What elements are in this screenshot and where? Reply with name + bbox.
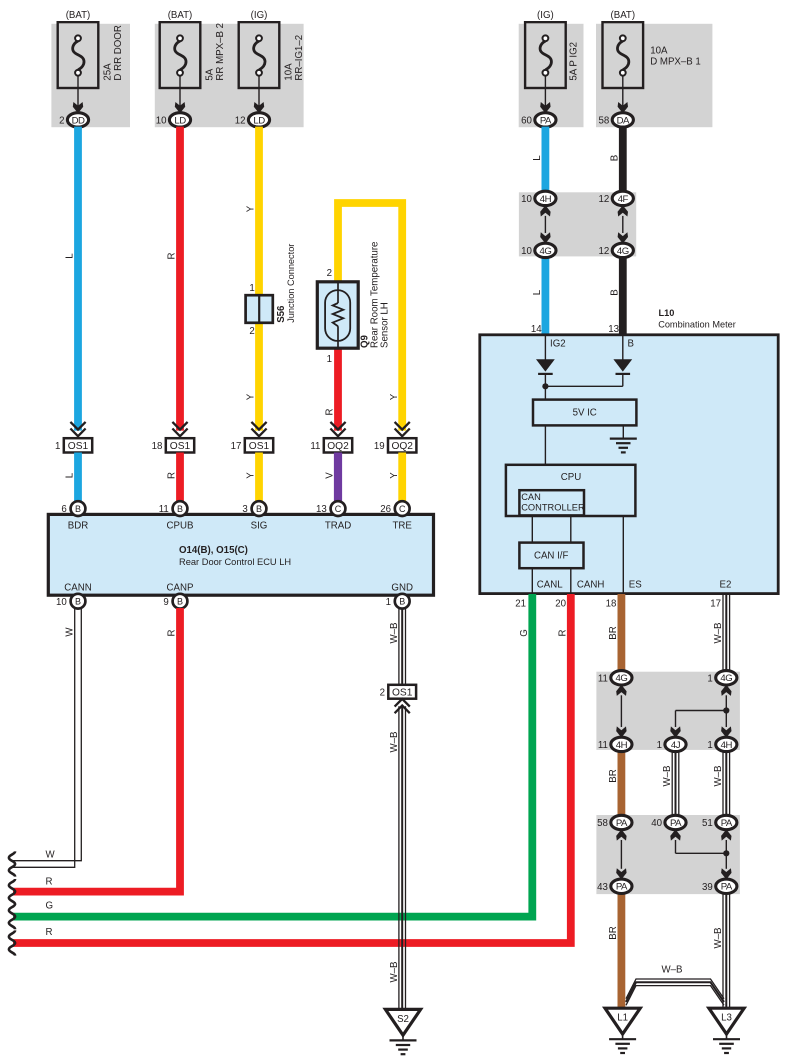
wire label W-B <box>389 732 400 753</box>
svg-text:D MPX–B 1: D MPX–B 1 <box>650 57 701 68</box>
svg-text:L: L <box>65 472 76 478</box>
svg-text:OQ2: OQ2 <box>391 441 413 452</box>
svg-text:CANH: CANH <box>577 580 604 591</box>
svg-text:11: 11 <box>310 441 320 452</box>
wire label W-B (horizontal) <box>662 964 683 975</box>
svg-text:11: 11 <box>159 504 169 515</box>
svg-text:4F: 4F <box>618 194 629 205</box>
ECU pin 3 B <box>242 501 266 516</box>
fuse label 10A RR-IG1-2 <box>284 35 305 81</box>
connector 43 PA <box>597 879 632 893</box>
wire W-B (E2 17 to 4G) <box>723 594 730 671</box>
ECU pin name SIG <box>251 520 268 531</box>
meter wire IG2 to diode <box>544 335 546 360</box>
svg-text:R: R <box>167 630 178 637</box>
wire break curl (G) <box>9 904 15 929</box>
svg-text:W–B: W–B <box>389 962 400 983</box>
svg-text:G: G <box>519 629 530 637</box>
5V IC label <box>573 408 597 419</box>
svg-text:PA: PA <box>540 115 552 126</box>
wire label W-B <box>389 623 400 644</box>
wire Y yellow (Q9 pin2 over to OQ2 19) <box>338 203 402 431</box>
svg-text:Y: Y <box>389 472 400 479</box>
svg-text:W: W <box>46 850 56 861</box>
svg-text:11: 11 <box>598 673 608 684</box>
svg-text:(BAT): (BAT) <box>611 10 636 21</box>
svg-text:W–B: W–B <box>389 732 400 753</box>
svg-text:4H: 4H <box>540 194 552 205</box>
svg-text:L: L <box>532 155 543 161</box>
wire label R <box>325 409 336 416</box>
wire W-B (4H to PA) <box>723 751 730 816</box>
connector 1 OS1 <box>55 422 92 453</box>
wire label BR <box>608 769 619 782</box>
ECU pin name CPUB <box>167 520 194 531</box>
5V IC box <box>533 400 636 426</box>
svg-text:14: 14 <box>531 324 542 335</box>
meter pin number 13 <box>608 324 619 335</box>
svg-text:B: B <box>75 504 81 514</box>
connector 12 4F <box>599 191 634 205</box>
svg-text:39: 39 <box>702 882 713 893</box>
wire label R <box>167 472 178 479</box>
svg-text:PA: PA <box>721 882 733 893</box>
svg-text:B: B <box>628 339 634 350</box>
connector 2 OS1 <box>380 685 416 713</box>
connector block background PA-PA <box>596 815 740 894</box>
wire label BR <box>608 926 619 939</box>
svg-text:11: 11 <box>598 740 608 751</box>
svg-text:TRAD: TRAD <box>325 520 351 531</box>
S56 label Junction Connector <box>286 244 296 323</box>
svg-text:R: R <box>167 253 178 260</box>
svg-text:(IG): (IG) <box>251 10 268 21</box>
svg-text:L: L <box>532 289 543 295</box>
connector 1 4G <box>707 671 736 685</box>
wire diode D1 down <box>544 374 546 400</box>
svg-text:21: 21 <box>515 599 526 610</box>
svg-text:Y: Y <box>246 393 257 400</box>
connector 2 DD <box>59 113 88 127</box>
wire label W <box>65 627 76 637</box>
S56 label <box>276 305 287 323</box>
connector 10 4G <box>521 243 556 257</box>
label L10 <box>659 308 675 318</box>
ECU pin 11 B <box>159 501 188 516</box>
wire CAN I/F to CANH <box>570 568 572 593</box>
svg-text:20: 20 <box>555 599 566 610</box>
wire break curl (W) <box>9 851 15 876</box>
svg-text:V: V <box>325 472 336 479</box>
wire label W-B <box>713 623 724 644</box>
wire label Y <box>389 393 400 400</box>
Combination Meter L10 box <box>480 335 778 594</box>
wire label BR <box>608 626 619 639</box>
pass-through arrows 40 PA / 51 PA to 39 PA <box>670 829 731 879</box>
wire R red (LD to OS1) <box>176 127 184 431</box>
wire W-B (4J to PA 40) <box>672 751 679 816</box>
sensor Q9 Rear Room Temperature Sensor LH <box>317 282 358 348</box>
svg-text:17: 17 <box>710 599 721 610</box>
svg-text:W–B: W–B <box>713 623 724 644</box>
svg-text:SIG: SIG <box>251 520 268 531</box>
svg-text:2: 2 <box>327 268 332 279</box>
svg-text:1: 1 <box>327 354 332 365</box>
svg-text:L3: L3 <box>721 1013 732 1024</box>
fuse label 5A RR MPX-B 2 <box>205 23 226 81</box>
svg-text:G: G <box>46 901 54 912</box>
svg-text:GND: GND <box>391 582 413 593</box>
svg-text:W–B: W–B <box>389 623 400 644</box>
wire label W-B <box>713 766 724 787</box>
meter pin number 20 <box>555 599 566 610</box>
svg-text:W: W <box>65 627 76 637</box>
pass-through arrows 4G to 4H (left) <box>616 685 626 738</box>
wire CAN controller to CAN I/F right <box>570 516 572 543</box>
wire label V <box>325 472 336 479</box>
svg-text:Y: Y <box>389 393 400 400</box>
meter pin name E2 <box>720 580 732 591</box>
S56 pin 1 <box>249 283 254 294</box>
wire L blue (OS1 to BDR) <box>74 453 82 503</box>
svg-text:W–B: W–B <box>713 928 724 949</box>
label Combination Meter <box>658 319 736 329</box>
wire R red (Q9 pin1 to OQ2 11) <box>334 344 342 431</box>
svg-text:Combination Meter: Combination Meter <box>658 319 736 329</box>
CPU box <box>506 465 636 516</box>
wire V violet (OQ2 to TRAD) <box>334 453 342 503</box>
svg-text:(BAT): (BAT) <box>168 10 193 21</box>
CAN CONTROLLER label <box>521 492 585 513</box>
svg-text:W–B: W–B <box>662 766 673 787</box>
wire label Y <box>246 393 257 400</box>
svg-text:4G: 4G <box>720 673 732 684</box>
wire label W-B <box>662 766 673 787</box>
svg-text:1: 1 <box>249 283 254 294</box>
meter wire B to diode <box>622 335 624 360</box>
connector 40 PA <box>651 815 686 829</box>
svg-text:12: 12 <box>599 194 610 205</box>
wire BR brown (PA to L1) <box>618 893 626 1009</box>
svg-text:PA: PA <box>616 882 628 893</box>
connector 11 4G <box>598 671 632 685</box>
svg-text:E2: E2 <box>720 580 732 591</box>
wire label L <box>65 472 76 478</box>
wire label B <box>610 155 621 161</box>
svg-text:PA: PA <box>616 818 628 829</box>
wire W-B (PA 39 to L3) <box>723 893 730 1009</box>
svg-text:17: 17 <box>231 441 242 452</box>
CAN CONTROLLER box <box>519 490 584 515</box>
svg-text:W–B: W–B <box>662 964 683 975</box>
wire R red (OS1 to CPUB) <box>176 453 184 503</box>
svg-text:BDR: BDR <box>68 520 88 531</box>
wire label W-B <box>713 928 724 949</box>
svg-text:R: R <box>558 630 569 637</box>
svg-text:5V IC: 5V IC <box>573 408 597 419</box>
ECU pin 13 C <box>316 501 345 516</box>
svg-text:1: 1 <box>707 673 712 684</box>
svg-text:Junction Connector: Junction Connector <box>286 244 296 323</box>
ECU pin name GND <box>391 582 413 593</box>
svg-text:51: 51 <box>702 818 713 829</box>
connector 11 OQ2 <box>310 422 352 453</box>
connector 11 4H <box>598 737 632 751</box>
wire label L <box>532 155 543 161</box>
diode D1 <box>536 359 555 374</box>
fuse label 10A D MPX-B 1 <box>650 45 701 67</box>
connector 10 LD <box>156 113 191 127</box>
wire CPU to ES <box>622 516 624 594</box>
fuse block background (IG 5A P IG2) <box>519 24 584 127</box>
connector 58 PA <box>597 815 632 829</box>
meter pin number 18 <box>606 599 617 610</box>
svg-text:Y: Y <box>246 205 257 212</box>
meter pin number 17 <box>710 599 721 610</box>
Q9 pin 1 <box>327 354 332 365</box>
svg-text:1: 1 <box>55 441 60 452</box>
svg-text:R: R <box>325 409 336 416</box>
wire B black (4G to meter pin 13) <box>619 257 627 335</box>
connector 19 OQ2 <box>374 422 417 453</box>
svg-text:OS1: OS1 <box>392 687 413 698</box>
svg-text:(IG): (IG) <box>537 10 554 21</box>
CAN I/F label <box>534 551 569 562</box>
wire Y yellow (S56 to OS1) <box>255 322 263 431</box>
svg-text:LD: LD <box>253 115 265 126</box>
wire label R <box>167 253 178 260</box>
svg-text:58: 58 <box>599 115 610 126</box>
junction dot <box>542 383 548 389</box>
connector 10 4H <box>521 191 556 205</box>
svg-text:W–B: W–B <box>713 766 724 787</box>
wire break curl (R) <box>9 879 15 904</box>
pass-through arrows 58 PA to 43 PA <box>616 829 626 879</box>
svg-text:26: 26 <box>380 504 391 515</box>
wire label W-B <box>389 962 400 983</box>
svg-text:1: 1 <box>707 740 712 751</box>
connector 58 DA <box>599 113 634 127</box>
ECU pin name TRE <box>393 520 413 531</box>
Q9 label <box>359 334 370 348</box>
svg-text:C: C <box>399 504 406 514</box>
ECU pin name CANP <box>167 582 194 593</box>
wire B black (DA to 4F) <box>619 127 627 192</box>
ECU label O14(B), O15(C) <box>179 545 248 556</box>
svg-text:R: R <box>167 472 178 479</box>
svg-text:CANN: CANN <box>64 582 91 593</box>
svg-text:PA: PA <box>670 818 682 829</box>
svg-text:(BAT): (BAT) <box>66 10 91 21</box>
svg-text:R: R <box>46 927 53 938</box>
wire R red (CANH 20 to left edge) <box>13 594 571 943</box>
wire label L <box>65 253 76 259</box>
wire 5V IC to ground <box>622 425 624 438</box>
svg-text:4H: 4H <box>721 740 733 751</box>
wire label G (horizontal) <box>46 901 54 912</box>
svg-text:O14(B), O15(C): O14(B), O15(C) <box>179 545 248 556</box>
S56 pin 2 <box>249 326 254 337</box>
connector 18 OS1 <box>152 422 195 453</box>
svg-text:CPUB: CPUB <box>167 520 194 531</box>
connector 39 PA <box>702 879 737 893</box>
wire W-B (OS1 to S2) <box>399 706 406 1009</box>
CPU label <box>561 472 581 483</box>
wire BR brown (ES 18 to 4G) <box>618 594 626 671</box>
wire BR brown (4H to PA) <box>618 751 626 816</box>
svg-text:Y: Y <box>246 472 257 479</box>
svg-text:OS1: OS1 <box>68 441 89 452</box>
svg-text:S2: S2 <box>397 1014 409 1025</box>
wire 5V IC to CPU <box>544 425 546 465</box>
connector 1 4H <box>707 737 736 751</box>
svg-text:2: 2 <box>380 688 385 699</box>
ECU label Rear Door Control ECU LH <box>179 557 291 567</box>
svg-text:Rear Door Control ECU LH: Rear Door Control ECU LH <box>179 557 291 567</box>
meter net IG2 <box>550 339 566 350</box>
meter pin name CANH <box>577 580 604 591</box>
wire label Y <box>389 472 400 479</box>
wire W white (CANN 10 to left edge) <box>13 608 81 867</box>
wire diode D2 to junction <box>545 374 622 386</box>
svg-text:19: 19 <box>374 441 385 452</box>
Q9 pin 2 <box>327 268 332 279</box>
svg-text:40: 40 <box>651 818 662 829</box>
wire G green (CANL 21 to left edge) <box>13 594 532 917</box>
meter pin name CANL <box>537 580 563 591</box>
svg-text:10: 10 <box>521 246 532 257</box>
svg-text:ES: ES <box>629 580 642 591</box>
wire label Y <box>246 472 257 479</box>
connector 51 PA <box>702 815 737 829</box>
svg-text:B: B <box>177 504 183 514</box>
svg-text:OS1: OS1 <box>249 441 270 452</box>
svg-text:CAN I/F: CAN I/F <box>534 551 569 562</box>
connector 12 LD <box>235 113 270 127</box>
svg-text:B: B <box>256 504 262 514</box>
svg-text:18: 18 <box>152 441 163 452</box>
svg-text:L1: L1 <box>617 1013 628 1024</box>
svg-text:DD: DD <box>72 115 85 126</box>
svg-text:DA: DA <box>617 115 630 126</box>
ground S2 <box>385 1009 420 1054</box>
wire break curl (R) <box>9 930 15 955</box>
svg-text:58: 58 <box>597 818 608 829</box>
svg-text:4G: 4G <box>539 246 551 257</box>
wire label G <box>519 629 530 637</box>
fuse 25A D RR DOOR <box>58 10 99 113</box>
svg-text:LD: LD <box>174 115 186 126</box>
svg-text:6: 6 <box>61 504 66 515</box>
svg-text:1: 1 <box>657 740 662 751</box>
svg-text:10: 10 <box>56 597 67 608</box>
meter net B <box>628 339 634 350</box>
pass-through arrows 4F to 4G <box>618 205 628 243</box>
meter pin number 14 <box>531 324 542 335</box>
CAN I/F box <box>519 543 583 569</box>
wire W-B (L1 to L3 link) <box>626 979 724 1005</box>
connector 1 4J <box>657 737 686 751</box>
ECU O14(B) O15(C) Rear Door Control ECU LH box <box>48 514 433 595</box>
svg-text:OQ2: OQ2 <box>327 441 349 452</box>
fuse block background (BAT 10A D MPX-B 1) <box>596 24 712 127</box>
wire label R (horizontal) <box>46 927 53 938</box>
wire label R <box>558 630 569 637</box>
wire Y yellow (OS1 to SIG) <box>255 453 263 503</box>
svg-text:PA: PA <box>721 818 733 829</box>
wire Y yellow (OQ2 to TRE) <box>398 453 406 503</box>
fuse 5A P IG2 <box>525 10 566 113</box>
pass-through arrows 4H to 4G <box>540 205 550 243</box>
svg-text:B: B <box>399 597 405 607</box>
svg-text:Sensor LH: Sensor LH <box>380 302 391 348</box>
ECU pin 9 B <box>163 594 187 609</box>
fuse block background (left, BAT 25A) <box>51 24 130 127</box>
svg-text:10A: 10A <box>650 45 668 56</box>
svg-text:B: B <box>177 597 183 607</box>
svg-text:18: 18 <box>606 599 617 610</box>
svg-text:B: B <box>610 155 621 161</box>
svg-text:CPU: CPU <box>561 472 581 483</box>
meter pin number 21 <box>515 599 526 610</box>
connector block background 4G-4H/4J <box>596 672 740 750</box>
ECU pin 1 B <box>386 594 410 609</box>
svg-text:5A P IG2: 5A P IG2 <box>569 42 580 81</box>
svg-text:60: 60 <box>521 115 532 126</box>
svg-text:IG2: IG2 <box>550 339 566 350</box>
svg-text:4G: 4G <box>615 673 627 684</box>
wire Y yellow (LD to S56) <box>255 127 263 296</box>
Q9 label Sensor LH <box>380 302 391 348</box>
svg-text:13: 13 <box>608 324 619 335</box>
junction connector S56 <box>246 295 273 323</box>
fuse label 5A P IG2 <box>569 42 580 81</box>
wire label Y <box>246 205 257 212</box>
wire W-B (GND 1 to OS1) <box>399 608 406 686</box>
wire label L <box>532 289 543 295</box>
svg-text:2: 2 <box>249 326 254 337</box>
svg-text:10: 10 <box>521 194 532 205</box>
ECU pin name TRAD <box>325 520 351 531</box>
svg-text:13: 13 <box>316 504 327 515</box>
svg-text:C: C <box>335 504 342 514</box>
svg-text:BR: BR <box>608 626 619 639</box>
ground (in meter) <box>610 439 637 453</box>
ground L3 <box>709 1008 744 1053</box>
wire CAN I/F to CANL <box>531 568 533 593</box>
svg-text:4H: 4H <box>616 740 628 751</box>
svg-text:B: B <box>75 597 81 607</box>
connector 60 PA <box>521 113 556 127</box>
ECU pin 6 B <box>61 501 85 516</box>
svg-text:CONTROLLER: CONTROLLER <box>521 503 585 513</box>
ground L1 <box>605 1008 640 1053</box>
wire CAN controller to CAN I/F left <box>531 516 533 543</box>
wire label W (horizontal) <box>46 850 56 861</box>
fuse block background (middle, BAT 5A + IG 10A) <box>155 24 304 127</box>
ECU pin 10 B <box>56 594 85 609</box>
svg-text:4J: 4J <box>671 740 681 751</box>
fuse 5A RR MPX-B 2 <box>160 10 201 113</box>
pass-through arrows 4G to 4H/4J (right) <box>670 685 731 738</box>
wire label R <box>167 630 178 637</box>
meter pin name ES <box>629 580 642 591</box>
connector 12 4G <box>599 243 634 257</box>
wire label R (horizontal) <box>46 876 53 887</box>
wire L blue (PA to 4H) <box>542 127 550 192</box>
svg-text:BR: BR <box>608 926 619 939</box>
svg-text:TRE: TRE <box>393 520 413 531</box>
